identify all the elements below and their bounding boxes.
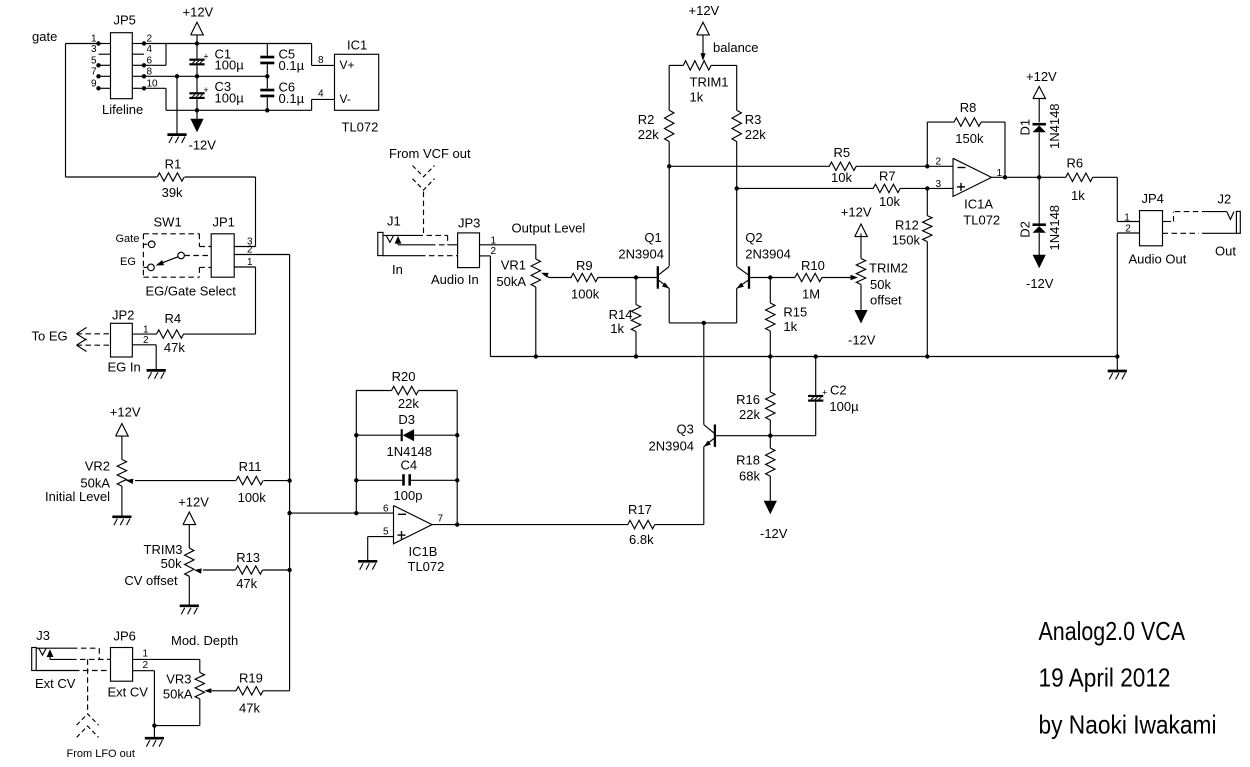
svg-text:2: 2 xyxy=(147,34,153,45)
svg-text:1: 1 xyxy=(143,649,149,660)
svg-text:1M: 1M xyxy=(802,287,820,302)
svg-text:IC1B: IC1B xyxy=(409,544,438,559)
svg-text:TL072: TL072 xyxy=(342,120,379,135)
svg-text:1k: 1k xyxy=(1071,188,1085,203)
svg-text:Lifeline: Lifeline xyxy=(102,102,143,117)
svg-text:R15: R15 xyxy=(783,304,807,319)
svg-text:22k: 22k xyxy=(398,396,419,411)
svg-text:VR3: VR3 xyxy=(166,671,191,686)
svg-text:39k: 39k xyxy=(162,185,183,200)
svg-text:D1: D1 xyxy=(1018,119,1033,136)
svg-text:From LFO out: From LFO out xyxy=(67,748,135,760)
svg-text:TL072: TL072 xyxy=(963,213,1000,228)
svg-text:JP5: JP5 xyxy=(114,13,136,28)
svg-text:R11: R11 xyxy=(239,459,262,474)
svg-text:R5: R5 xyxy=(834,145,851,160)
svg-text:100µ: 100µ xyxy=(215,91,245,106)
svg-text:3: 3 xyxy=(935,179,941,190)
svg-text:2N3904: 2N3904 xyxy=(649,438,695,453)
svg-text:Q3: Q3 xyxy=(677,422,694,437)
svg-text:In: In xyxy=(392,262,403,277)
svg-text:TRIM2: TRIM2 xyxy=(869,261,908,276)
svg-text:TRIM3: TRIM3 xyxy=(144,542,183,557)
svg-text:J1: J1 xyxy=(387,214,401,229)
svg-text:1k: 1k xyxy=(783,319,797,334)
svg-text:J2: J2 xyxy=(1218,191,1232,206)
svg-text:7: 7 xyxy=(438,514,444,525)
svg-text:50k: 50k xyxy=(870,277,891,292)
svg-text:R6: R6 xyxy=(1067,155,1084,170)
svg-text:R8: R8 xyxy=(960,100,977,115)
svg-text:1N4148: 1N4148 xyxy=(1047,103,1062,149)
svg-text:+: + xyxy=(203,85,208,95)
svg-text:SW1: SW1 xyxy=(154,215,182,230)
svg-text:IC1: IC1 xyxy=(347,38,367,53)
svg-text:R17: R17 xyxy=(628,502,652,517)
svg-text:8: 8 xyxy=(318,55,324,66)
svg-text:10k: 10k xyxy=(831,170,852,185)
svg-text:Out: Out xyxy=(1215,243,1236,258)
svg-text:100µ: 100µ xyxy=(215,58,245,73)
svg-text:R2: R2 xyxy=(638,112,655,127)
svg-text:R20: R20 xyxy=(392,369,416,384)
svg-text:D2: D2 xyxy=(1018,221,1033,238)
svg-text:R19: R19 xyxy=(239,671,263,686)
svg-text:gate: gate xyxy=(32,29,57,44)
svg-text:47k: 47k xyxy=(239,701,260,716)
svg-text:V-: V- xyxy=(340,92,351,106)
svg-text:Q2: Q2 xyxy=(745,230,762,245)
svg-text:-12V: -12V xyxy=(760,526,788,541)
svg-text:Ext CV: Ext CV xyxy=(35,676,76,691)
svg-text:JP6: JP6 xyxy=(114,629,136,644)
svg-text:50kA: 50kA xyxy=(163,686,193,701)
svg-text:47k: 47k xyxy=(236,576,257,591)
svg-text:VR1: VR1 xyxy=(501,257,526,272)
svg-text:100k: 100k xyxy=(571,287,600,302)
svg-text:-12V: -12V xyxy=(189,138,217,153)
svg-text:+12V: +12V xyxy=(110,404,141,419)
svg-text:47k: 47k xyxy=(164,340,185,355)
svg-text:19 April 2012: 19 April 2012 xyxy=(1039,663,1171,693)
svg-text:68k: 68k xyxy=(739,469,760,484)
svg-text:CV offset: CV offset xyxy=(124,573,178,588)
svg-text:+: + xyxy=(203,51,208,61)
svg-text:10: 10 xyxy=(147,78,159,89)
svg-text:1: 1 xyxy=(143,324,149,335)
svg-text:C4: C4 xyxy=(401,457,418,472)
svg-text:Ext CV: Ext CV xyxy=(108,685,149,700)
svg-text:EG/Gate Select: EG/Gate Select xyxy=(146,284,237,299)
svg-text:4: 4 xyxy=(147,44,153,55)
svg-text:1: 1 xyxy=(247,257,253,268)
svg-text:R7: R7 xyxy=(879,169,896,184)
svg-text:Audio Out: Audio Out xyxy=(1129,252,1187,267)
svg-text:IC1A: IC1A xyxy=(964,196,993,211)
svg-text:+12V: +12V xyxy=(178,494,209,509)
svg-text:Analog2.0 VCA: Analog2.0 VCA xyxy=(1039,616,1186,646)
svg-text:3: 3 xyxy=(91,44,97,55)
svg-text:6.8k: 6.8k xyxy=(629,532,654,547)
svg-text:2N3904: 2N3904 xyxy=(745,246,791,261)
svg-text:100µ: 100µ xyxy=(829,399,859,414)
svg-text:JP3: JP3 xyxy=(458,215,480,230)
svg-text:2: 2 xyxy=(491,246,497,257)
svg-text:7: 7 xyxy=(91,66,97,77)
svg-text:1k: 1k xyxy=(610,321,624,336)
svg-text:+12V: +12V xyxy=(689,3,720,18)
svg-text:Initial Level: Initial Level xyxy=(45,489,110,504)
svg-text:JP2: JP2 xyxy=(112,308,134,323)
svg-text:VR2: VR2 xyxy=(85,458,110,473)
svg-text:50kA: 50kA xyxy=(496,274,526,289)
svg-text:EG In: EG In xyxy=(108,360,141,375)
svg-text:R9: R9 xyxy=(576,258,593,273)
svg-text:TRIM1: TRIM1 xyxy=(690,75,729,90)
svg-text:-12V: -12V xyxy=(848,332,876,347)
svg-text:10k: 10k xyxy=(879,194,900,209)
svg-text:+12V: +12V xyxy=(1026,69,1057,84)
svg-text:V+: V+ xyxy=(340,58,355,72)
svg-text:1: 1 xyxy=(1124,212,1130,223)
svg-text:8: 8 xyxy=(147,66,153,77)
svg-text:EG: EG xyxy=(120,256,136,268)
svg-text:Gate: Gate xyxy=(116,233,140,245)
svg-text:R14: R14 xyxy=(609,307,633,322)
svg-text:-12V: -12V xyxy=(1026,276,1054,291)
svg-text:Audio In: Audio In xyxy=(431,272,479,287)
svg-text:TL072: TL072 xyxy=(408,559,445,574)
svg-text:22k: 22k xyxy=(638,127,659,142)
svg-text:by Naoki Iwakami: by Naoki Iwakami xyxy=(1039,710,1217,740)
svg-text:2: 2 xyxy=(143,660,149,671)
svg-text:To EG: To EG xyxy=(32,329,68,344)
svg-text:R1: R1 xyxy=(165,157,182,172)
svg-text:JP4: JP4 xyxy=(1142,191,1164,206)
svg-text:9: 9 xyxy=(91,78,97,89)
svg-text:0.1µ: 0.1µ xyxy=(279,91,305,106)
svg-text:offset: offset xyxy=(870,293,902,308)
svg-text:150k: 150k xyxy=(892,232,921,247)
svg-text:R16: R16 xyxy=(736,392,760,407)
svg-text:Mod. Depth: Mod. Depth xyxy=(171,633,238,648)
svg-text:Output Level: Output Level xyxy=(512,221,586,236)
svg-text:50k: 50k xyxy=(161,556,182,571)
svg-text:balance: balance xyxy=(713,40,759,55)
svg-text:100k: 100k xyxy=(238,490,267,505)
svg-text:R13: R13 xyxy=(236,550,260,565)
svg-text:2: 2 xyxy=(247,245,253,256)
svg-text:+: + xyxy=(822,388,827,398)
svg-text:4: 4 xyxy=(318,89,324,100)
svg-text:100p: 100p xyxy=(394,488,423,503)
svg-text:D3: D3 xyxy=(398,412,415,427)
svg-text:5: 5 xyxy=(91,55,97,66)
svg-text:2: 2 xyxy=(935,157,941,168)
svg-text:2N3904: 2N3904 xyxy=(618,246,664,261)
svg-text:+12V: +12V xyxy=(841,204,872,219)
svg-text:0.1µ: 0.1µ xyxy=(279,58,305,73)
svg-text:R4: R4 xyxy=(165,311,182,326)
svg-text:1k: 1k xyxy=(690,90,704,105)
svg-text:150k: 150k xyxy=(955,131,984,146)
svg-text:+12V: +12V xyxy=(183,5,214,20)
svg-text:22k: 22k xyxy=(745,127,766,142)
svg-text:1: 1 xyxy=(91,34,97,45)
svg-text:JP1: JP1 xyxy=(213,215,235,230)
svg-text:R12: R12 xyxy=(895,218,919,233)
svg-text:6: 6 xyxy=(147,55,153,66)
svg-text:R10: R10 xyxy=(801,258,825,273)
svg-text:5: 5 xyxy=(383,526,389,537)
svg-text:C2: C2 xyxy=(830,383,847,398)
svg-text:Q1: Q1 xyxy=(644,230,661,245)
svg-text:R18: R18 xyxy=(736,452,760,467)
svg-text:22k: 22k xyxy=(739,407,760,422)
svg-text:J3: J3 xyxy=(36,628,50,643)
svg-text:From VCF out: From VCF out xyxy=(389,146,471,161)
svg-text:1N4148: 1N4148 xyxy=(1047,205,1062,251)
svg-text:R3: R3 xyxy=(745,112,762,127)
